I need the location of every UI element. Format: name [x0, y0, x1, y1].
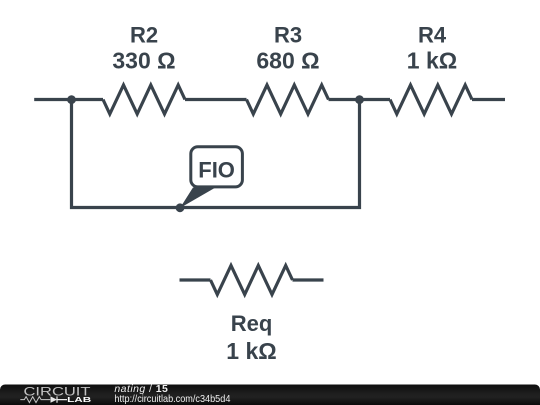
- node A (junction dot left): [67, 95, 76, 104]
- wire: R2 to R3: [185, 98, 247, 101]
- svg-text:R2: R2: [130, 22, 158, 47]
- svg-text:LAB: LAB: [67, 397, 91, 404]
- flag FIO box: [191, 147, 243, 187]
- logo diode: [51, 396, 58, 402]
- resistor R3: [247, 85, 329, 114]
- wire: Req left lead: [180, 278, 211, 281]
- svg-text:R3: R3: [274, 22, 302, 47]
- svg-text:http://circuitlab.com/c34b5d4: http://circuitlab.com/c34b5d4: [114, 393, 230, 405]
- svg-text:1 kΩ: 1 kΩ: [407, 48, 457, 74]
- svg-text:1 kΩ: 1 kΩ: [226, 338, 276, 364]
- svg-text:Req: Req: [231, 311, 273, 336]
- svg-text:680 Ω: 680 Ω: [256, 48, 319, 74]
- resistor R2: [103, 85, 185, 114]
- wire: parallel loop (left down, bottom, right up): [72, 100, 360, 208]
- svg-text:330 Ω: 330 Ω: [112, 48, 175, 74]
- resistor Req: [211, 266, 293, 295]
- wire: R4 to right terminal: [472, 98, 505, 101]
- resistor R4: [390, 85, 472, 114]
- wire: R3 to R4: [329, 98, 391, 101]
- flag FIO pointer wedge: [180, 188, 216, 209]
- flag FIO attachment dot: [176, 203, 185, 212]
- logo wire with resistor: [20, 397, 50, 403]
- svg-text:R4: R4: [418, 22, 447, 47]
- node B (junction dot between R3 and R4): [355, 95, 364, 104]
- wire: left terminal to R2: [34, 98, 103, 101]
- svg-text:FIO: FIO: [198, 157, 235, 182]
- wire: Req right lead: [293, 278, 324, 281]
